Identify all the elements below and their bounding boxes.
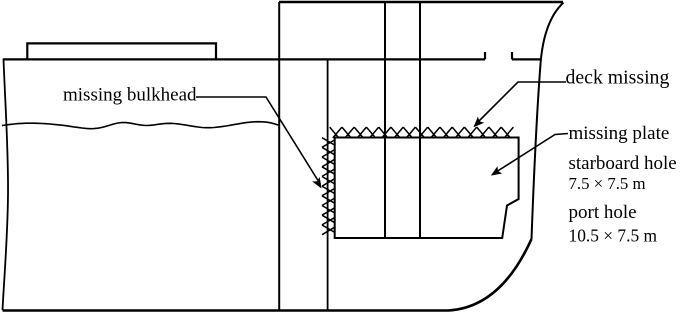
- svg-text:missing bulkhead: missing bulkhead: [63, 85, 197, 106]
- svg-text:10.5 × 7.5 m: 10.5 × 7.5 m: [569, 226, 658, 246]
- leader missing bulkhead: [196, 97, 321, 185]
- hull right side: [532, 3, 564, 240]
- arrowhead missing plate: [491, 166, 503, 176]
- engine casing left wall: [384, 2, 386, 238]
- hatch coaming tick left: [484, 52, 486, 59]
- superstructure front wall: [278, 2, 280, 311]
- superstructure top line: [279, 1, 563, 3]
- leader deck missing: [476, 82, 566, 124]
- svg-text:port hole: port hole: [569, 202, 637, 223]
- main deck line left of hatch: [3, 58, 485, 60]
- svg-text:missing plate: missing plate: [569, 123, 670, 144]
- bulkhead hatching (missing bulkhead zigzag): [322, 138, 335, 235]
- deck hatching (missing deck zigzag): [330, 127, 514, 138]
- leader missing plate: [495, 134, 569, 174]
- svg-text:deck missing: deck missing: [566, 67, 670, 89]
- arrowhead missing bulkhead: [312, 177, 321, 189]
- arrowhead deck missing: [474, 117, 485, 128]
- bulkhead: [327, 59, 329, 311]
- waterline wave: [2, 122, 279, 129]
- deckhouse: [27, 43, 216, 59]
- engine casing right wall: [419, 2, 421, 238]
- hull left side: [3, 59, 9, 310]
- hatch coaming tick right: [511, 52, 513, 59]
- hull bottom: [3, 239, 532, 311]
- missing plate outline: [335, 138, 519, 239]
- svg-text:7.5 × 7.5 m: 7.5 × 7.5 m: [569, 174, 646, 193]
- svg-text:starboard hole: starboard hole: [569, 153, 677, 174]
- main deck line right of hatch: [512, 58, 541, 60]
